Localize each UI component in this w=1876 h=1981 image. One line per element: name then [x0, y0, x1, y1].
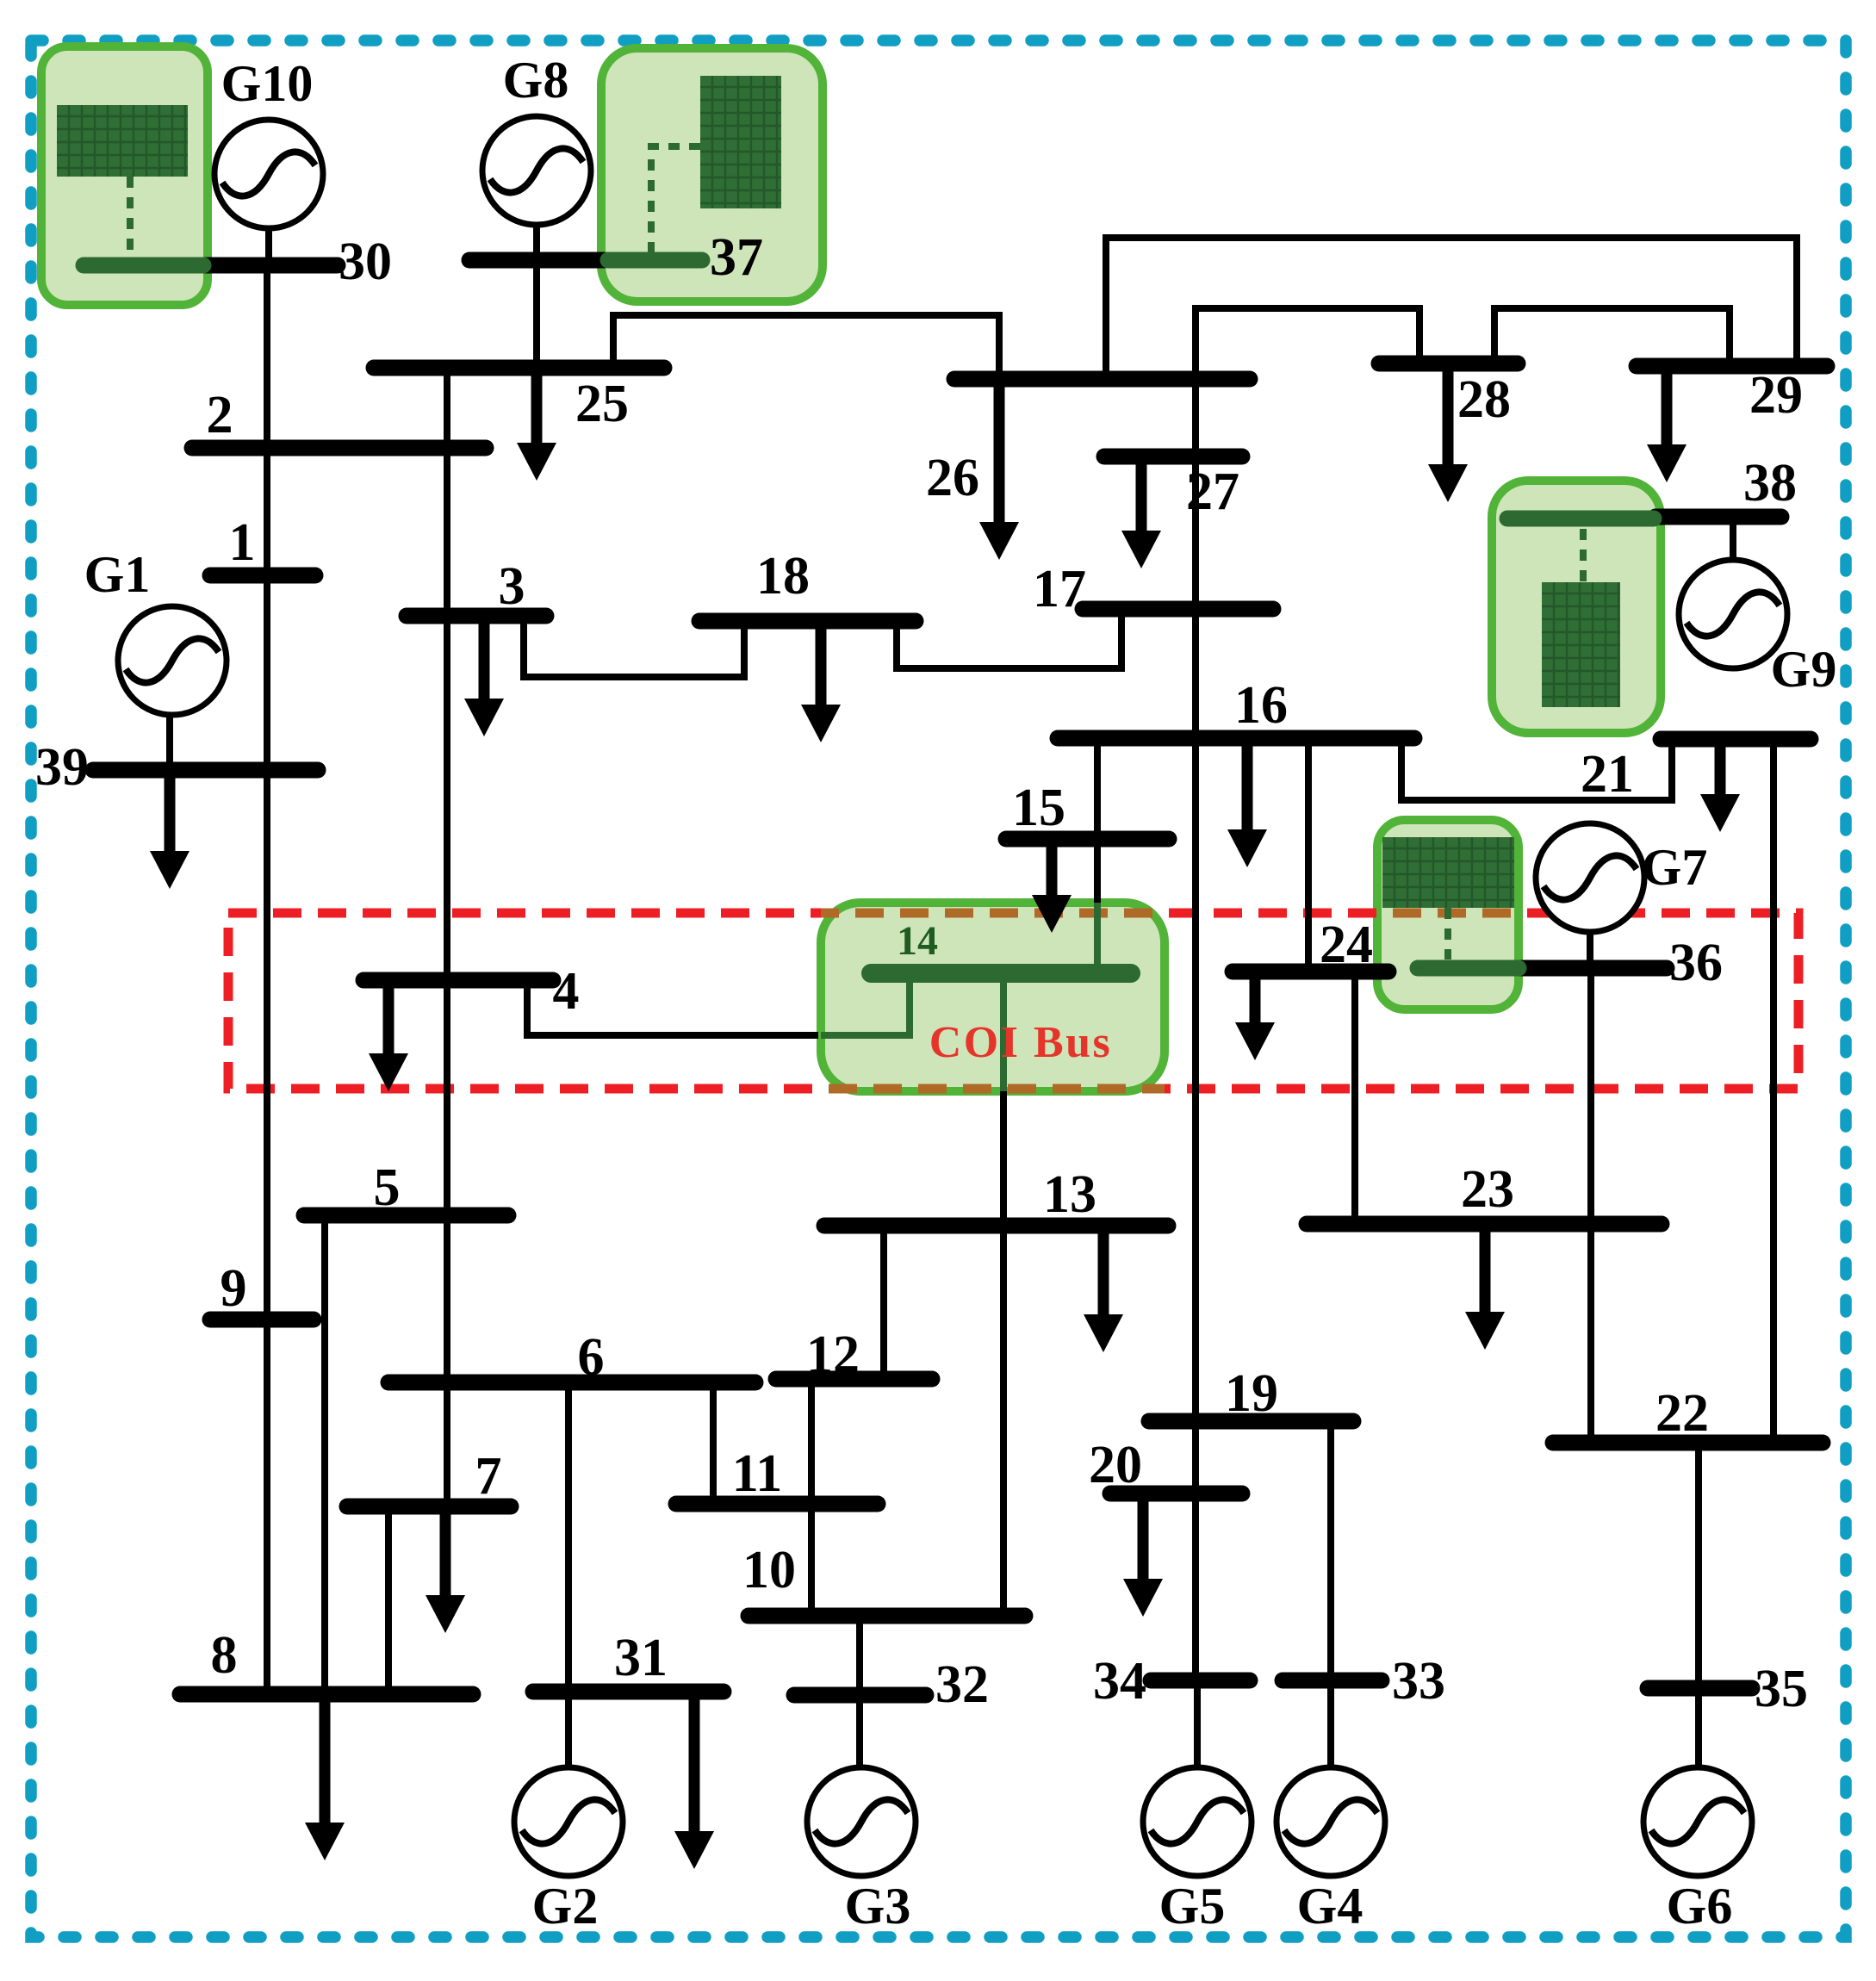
wire G7-36	[1587, 931, 1593, 968]
svg-text:13: 13	[1043, 1165, 1096, 1224]
bus 29	[1637, 366, 1827, 425]
load arrow bus 26	[979, 379, 1019, 560]
load arrow bus 25	[517, 368, 556, 481]
bus 32	[794, 1655, 989, 1714]
svg-text:31: 31	[614, 1629, 668, 1687]
load arrow bus 16	[1227, 738, 1267, 867]
bus 6	[388, 1328, 755, 1387]
svg-text:11: 11	[732, 1444, 783, 1503]
svg-text:30: 30	[339, 233, 392, 291]
bus 3	[407, 557, 546, 616]
bus 17	[1033, 560, 1273, 618]
wire G8-37-25	[533, 224, 540, 368]
svg-text:21: 21	[1581, 745, 1634, 804]
svg-text:17: 17	[1033, 560, 1086, 618]
wire 36-23-22	[1587, 968, 1594, 1443]
svg-text:12: 12	[806, 1326, 860, 1384]
green bus segment 36	[1418, 960, 1519, 977]
wire 31-G2	[565, 1692, 572, 1768]
svg-text:26: 26	[926, 449, 979, 507]
bus 20	[1089, 1436, 1242, 1494]
svg-text:G1: G1	[84, 546, 151, 603]
wire 7-8	[385, 1506, 392, 1694]
wire 19-33-G4	[1327, 1421, 1334, 1768]
generator G9	[1679, 560, 1836, 698]
svg-text:G3: G3	[845, 1878, 911, 1934]
svg-text:22: 22	[1655, 1384, 1709, 1443]
wire 4-14 outside	[527, 980, 818, 1035]
bus 30	[203, 233, 392, 291]
bus 2	[192, 386, 486, 448]
svg-text:10: 10	[742, 1541, 796, 1599]
battery icon bus 36	[1382, 837, 1514, 908]
load arrow bus 39	[150, 770, 189, 889]
generator G3	[807, 1767, 916, 1934]
bus 7	[347, 1447, 511, 1506]
bus 18	[699, 547, 916, 621]
wire G1-39	[166, 714, 173, 770]
wire 34-G5	[1194, 1680, 1201, 1768]
svg-text:G4: G4	[1297, 1878, 1364, 1934]
svg-text:20: 20	[1089, 1436, 1142, 1494]
wire 28-29	[1494, 308, 1730, 366]
svg-text:32: 32	[935, 1655, 989, 1714]
svg-text:33: 33	[1392, 1652, 1445, 1711]
bus 31	[533, 1629, 724, 1692]
wire 38-G9	[1730, 517, 1736, 561]
svg-text:36: 36	[1669, 934, 1723, 992]
svg-text:18: 18	[756, 547, 810, 605]
bus 16	[1058, 676, 1414, 738]
load arrow bus 8	[305, 1694, 345, 1860]
bus 25	[374, 368, 664, 433]
load arrow bus 18	[801, 621, 841, 742]
bus 35	[1648, 1660, 1808, 1718]
bus 14 (COI)	[871, 918, 1131, 973]
svg-text:G2: G2	[532, 1878, 599, 1934]
generator G6	[1643, 1767, 1752, 1934]
PMU box bus 30	[41, 47, 208, 305]
bus 33	[1283, 1652, 1445, 1711]
bus 9	[210, 1259, 314, 1320]
svg-text:G5: G5	[1159, 1878, 1226, 1934]
wire G10-30	[265, 227, 272, 265]
wire 12-11-10	[808, 1379, 815, 1616]
bus 5	[304, 1158, 508, 1217]
wire 4-14 inside box	[821, 973, 910, 1035]
wire 14-13-10	[1000, 1091, 1007, 1616]
wire 17-18	[897, 609, 1121, 668]
svg-text:38: 38	[1743, 454, 1797, 512]
svg-text:29: 29	[1749, 366, 1803, 425]
load arrow bus 23	[1465, 1224, 1505, 1350]
load arrow bus 21	[1700, 739, 1740, 832]
svg-text:3: 3	[499, 557, 525, 616]
bus 4	[363, 962, 580, 1021]
svg-text:G8: G8	[503, 52, 569, 109]
PMU box bus 37	[601, 48, 823, 301]
svg-text:39: 39	[35, 738, 89, 797]
wire 12-13	[880, 1226, 887, 1379]
bus 15	[1006, 779, 1169, 839]
load arrow bus 27	[1121, 456, 1161, 568]
bus 28	[1379, 363, 1518, 429]
svg-text:19: 19	[1225, 1364, 1278, 1423]
svg-text:28: 28	[1457, 370, 1511, 429]
bus 37	[469, 228, 763, 287]
dashed link bus 38	[1580, 529, 1587, 582]
red dashed COI region	[228, 913, 1798, 1089]
load arrow bus 13	[1084, 1226, 1123, 1352]
generator G10	[214, 55, 323, 228]
wire 25-26	[613, 315, 999, 379]
svg-text:27: 27	[1186, 463, 1239, 521]
green bus segment 37	[608, 252, 702, 269]
svg-text:23: 23	[1461, 1160, 1514, 1219]
battery icon bus 38	[1542, 582, 1620, 707]
PMU box bus 36	[1377, 820, 1519, 1009]
wire 22-35-G6	[1695, 1443, 1702, 1768]
wire 14-13 inside box	[1000, 973, 1007, 1091]
wire 6-31	[565, 1382, 572, 1768]
bus 11	[676, 1444, 878, 1504]
bus 8	[180, 1626, 473, 1694]
generator G5	[1143, 1767, 1252, 1934]
wire 21-22	[1770, 739, 1777, 1443]
generator G2	[514, 1767, 623, 1934]
wire 6-11	[710, 1382, 717, 1504]
svg-text:34: 34	[1093, 1652, 1146, 1711]
dashed link bus 30	[127, 177, 134, 255]
load arrow bus 28	[1428, 363, 1468, 502]
svg-text:9: 9	[221, 1259, 247, 1318]
bus 27	[1104, 456, 1242, 521]
svg-text:G6: G6	[1667, 1878, 1733, 1934]
svg-text:G10: G10	[221, 55, 314, 112]
generator G1	[84, 546, 227, 715]
load arrow bus 7	[426, 1506, 465, 1633]
wire 5-8	[321, 1215, 328, 1694]
wire 26-29	[1106, 238, 1797, 379]
wire 26-27-17-16-19-20-34	[1192, 379, 1199, 1680]
svg-text:6: 6	[578, 1328, 605, 1387]
wire 3-18	[524, 616, 744, 677]
wire 15-14 inside box	[1094, 903, 1101, 973]
bus 26	[926, 379, 1250, 507]
wire 26-28	[1196, 308, 1419, 379]
svg-text:35: 35	[1755, 1660, 1808, 1718]
bus 21	[1581, 739, 1811, 804]
load arrow bus 29	[1647, 366, 1687, 482]
dashed link bus 36	[1444, 908, 1451, 959]
bus 12	[776, 1326, 932, 1384]
svg-text:5: 5	[374, 1158, 401, 1217]
bus 34	[1093, 1652, 1250, 1711]
load arrow bus 20	[1123, 1494, 1163, 1617]
svg-text:1: 1	[229, 513, 256, 572]
wire 16-21	[1401, 738, 1672, 800]
bus 13	[824, 1165, 1168, 1226]
bus 19	[1149, 1364, 1353, 1423]
svg-text:G7: G7	[1642, 839, 1708, 896]
bus 22	[1553, 1384, 1823, 1443]
load arrow bus 4	[369, 980, 408, 1091]
green bus segment 30	[84, 258, 203, 274]
green bus segment 38	[1507, 511, 1654, 527]
bus 39	[35, 738, 318, 797]
bus 23	[1307, 1160, 1662, 1224]
svg-text:37: 37	[710, 228, 763, 287]
svg-text:8: 8	[211, 1626, 238, 1685]
svg-text:25: 25	[575, 375, 629, 433]
svg-text:G9: G9	[1771, 641, 1837, 698]
load arrow bus 31	[674, 1692, 714, 1869]
wire 16-24	[1305, 738, 1312, 972]
svg-text:15: 15	[1012, 779, 1065, 837]
wire 10-32-G3	[856, 1616, 863, 1768]
load arrow bus 3	[464, 616, 504, 736]
load arrow bus 24	[1235, 972, 1275, 1060]
svg-text:COI Bus: COI Bus	[929, 1018, 1113, 1067]
load arrow bus 15	[1032, 839, 1072, 933]
PMU box COI bus 14	[821, 903, 1165, 1091]
generator G7	[1536, 823, 1707, 932]
bus 24	[1233, 916, 1388, 974]
svg-text:7: 7	[475, 1447, 502, 1506]
wire 25-2-3-4-5-6-7	[444, 368, 450, 1506]
generator G4	[1277, 1767, 1385, 1934]
svg-text:2: 2	[207, 386, 233, 444]
wire 16-15	[1094, 738, 1101, 903]
bus 38	[1655, 454, 1797, 517]
battery icon bus 37	[700, 76, 781, 208]
battery icon bus 30	[57, 105, 188, 177]
bus 1	[210, 513, 315, 575]
dashed link bus 37	[651, 146, 700, 252]
svg-text:24: 24	[1320, 916, 1373, 974]
bus 10	[742, 1541, 1025, 1616]
svg-text:14: 14	[897, 918, 938, 964]
generator G8	[482, 52, 591, 225]
wire 30-2-1-39-9-8	[264, 272, 270, 1688]
bus 36	[1517, 934, 1723, 992]
PMU box bus 38	[1492, 481, 1661, 733]
svg-text:16: 16	[1234, 676, 1288, 735]
wire 24-23	[1351, 972, 1358, 1224]
svg-text:4: 4	[553, 962, 580, 1021]
